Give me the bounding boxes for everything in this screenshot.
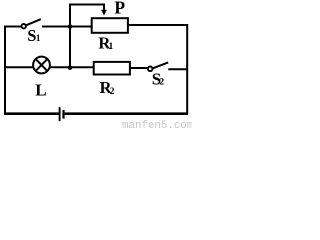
svg-text:L: L xyxy=(35,81,46,100)
svg-text:manfen5.com: manfen5.com xyxy=(122,120,192,130)
svg-text:1: 1 xyxy=(36,34,41,44)
svg-text:2: 2 xyxy=(110,87,115,97)
svg-text:P: P xyxy=(114,0,125,18)
svg-text:1: 1 xyxy=(109,42,114,52)
svg-text:2: 2 xyxy=(159,78,164,88)
